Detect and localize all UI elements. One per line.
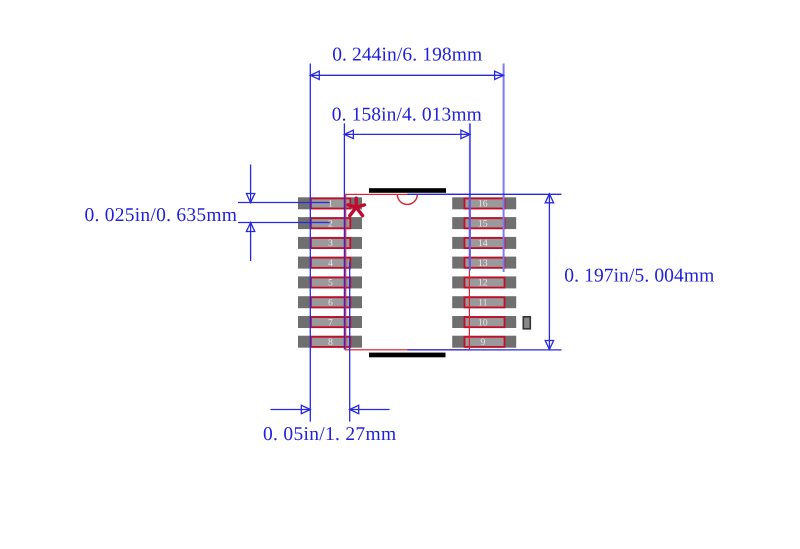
svg-text:10: 10 bbox=[478, 317, 488, 328]
svg-text:1: 1 bbox=[328, 199, 333, 210]
svg-text:6: 6 bbox=[328, 298, 333, 309]
svg-text:0. 025in/0. 635mm: 0. 025in/0. 635mm bbox=[85, 205, 238, 226]
svg-text:7: 7 bbox=[328, 317, 333, 328]
svg-text:2: 2 bbox=[328, 218, 333, 229]
svg-text:11: 11 bbox=[478, 298, 488, 309]
svg-text:9: 9 bbox=[480, 337, 485, 348]
svg-text:14: 14 bbox=[478, 238, 488, 249]
svg-text:0. 158in/4. 013mm: 0. 158in/4. 013mm bbox=[332, 104, 482, 125]
svg-text:0. 197in/5. 004mm: 0. 197in/5. 004mm bbox=[564, 265, 714, 286]
svg-text:5: 5 bbox=[328, 278, 333, 289]
svg-text:0. 05in/1. 27mm: 0. 05in/1. 27mm bbox=[263, 424, 396, 445]
svg-text:3: 3 bbox=[328, 238, 333, 249]
svg-text:16: 16 bbox=[478, 199, 488, 210]
svg-text:13: 13 bbox=[478, 258, 488, 269]
svg-text:12: 12 bbox=[478, 278, 488, 289]
svg-text:15: 15 bbox=[478, 218, 488, 229]
svg-text:0. 244in/6. 198mm: 0. 244in/6. 198mm bbox=[332, 45, 482, 66]
svg-text:8: 8 bbox=[328, 337, 333, 348]
svg-text:4: 4 bbox=[328, 258, 333, 269]
